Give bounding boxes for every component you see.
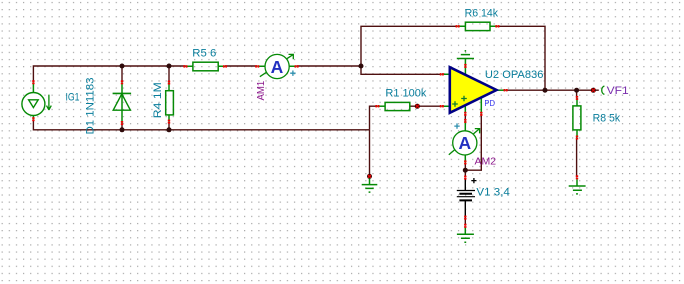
terminal R8 bottom [576,136,578,138]
svg-text:A: A [458,133,471,153]
node junction at 361,66 [359,64,364,69]
ground G3 below V1 [457,228,474,243]
wire top rail AM1 to node at x361 [297,65,361,67]
terminal AM1 left [255,65,257,67]
wire R6 to output node [497,26,545,90]
svg-text:R6 14k: R6 14k [465,7,499,19]
svg-text:R8 5k: R8 5k [593,113,621,125]
terminal R1 left [375,105,377,107]
terminal IG1 bottom [32,117,34,119]
wire riser to R1 [370,106,378,130]
terminal AM2 bottom [464,160,466,162]
wire riser down to ground G1 [369,130,371,177]
terminal D1 top [121,80,123,82]
wire R8 top [576,90,578,98]
resistor R6 [458,22,498,30]
wire bottom rail [33,119,369,130]
terminal R5 left [183,65,185,67]
svg-text:AM1: AM1 [255,81,267,101]
svg-text:V1 3,4: V1 3,4 [476,187,510,199]
terminal R6 left [456,25,458,27]
svg-text:R4 1M: R4 1M [152,82,164,118]
wire battery to ground G3 [464,218,466,226]
terminal ground G2 [576,175,578,177]
terminal PD pin [480,112,482,114]
wire top rail left segment IG1 to R5 [33,66,185,82]
ammeter AM1 [257,54,296,78]
terminal marks (red x pairs) [32,25,578,228]
terminal R8 top [576,96,578,98]
resistor R1 [377,102,409,110]
node junction at 169,66 [167,64,172,69]
diode D1 [113,82,132,123]
node junction at 545,90.2 [543,88,548,93]
current source IG1 [22,82,51,119]
terminal D1 bottom [121,121,123,123]
wire R1 to noninverting input [410,105,442,107]
terminal R6 right [495,25,497,27]
terminal opamp V+ pin [464,112,466,114]
terminal R4 top [168,81,170,83]
node junction at 576.6,90.2 [574,88,579,93]
svg-text:D1 1N1183: D1 1N1183 [85,78,97,135]
terminal V1 top [464,176,466,178]
node junction at 169,129.8 [167,127,172,132]
terminal ground G3 [464,224,466,226]
terminal V1 bottom [464,216,466,218]
svg-text:PD: PD [484,98,495,108]
svg-text:R5 6: R5 6 [192,48,216,60]
wire top rail R5 to AM1 [225,65,257,67]
terminal opamp output [504,89,506,91]
op-amp U2 [442,59,506,114]
svg-text:VF1: VF1 [607,85,629,97]
svg-text:IG1: IG1 [66,92,80,104]
svg-text:A: A [271,57,284,77]
svg-text:U2 OPA836: U2 OPA836 [485,69,544,81]
svg-text:R1 100k: R1 100k [385,88,426,100]
terminal AM2 top [464,119,466,121]
terminal opamp noninverting input [440,105,442,107]
ammeter AM2 [449,121,480,162]
wire D1 top drop [121,66,123,82]
op-amp supply bars symbol [457,50,474,59]
terminal opamp inverting input [440,73,442,75]
svg-text:AM2: AM2 [475,155,497,167]
terminal AM1 right [295,65,297,67]
output pin VF1 [591,86,605,94]
wire AM2 bottom to battery [464,162,466,177]
node junction with terminal at 417.3,106.2 [415,104,420,109]
wire R8 bottom to ground [576,138,578,178]
wire inverting input [361,66,442,74]
wire opamp V+ pin to AM2 [464,114,466,121]
wire R4 top drop [168,66,170,83]
battery V1 [457,178,477,218]
terminal opamp top supply [464,64,466,66]
node junction at 122,129.8 [120,127,125,132]
terminal IG1 top [32,80,34,82]
terminal R4 bottom [168,120,170,122]
wire PD pin down [465,114,481,170]
resistor R5 [186,62,226,71]
node junction at 465.3,170.2 [463,168,468,173]
resistor R8 [573,98,581,138]
ground G1 at riser [362,174,378,192]
wire D1 bottom drop [121,123,123,130]
resistor R4 [166,83,174,122]
wire output row [506,89,599,91]
wire R4 bottom drop [168,122,170,130]
node junction at 122,66 [120,64,125,69]
wire feedback up to R6 [361,26,458,66]
terminal R5 right [223,65,225,67]
ground G2 below R8 [569,179,586,194]
